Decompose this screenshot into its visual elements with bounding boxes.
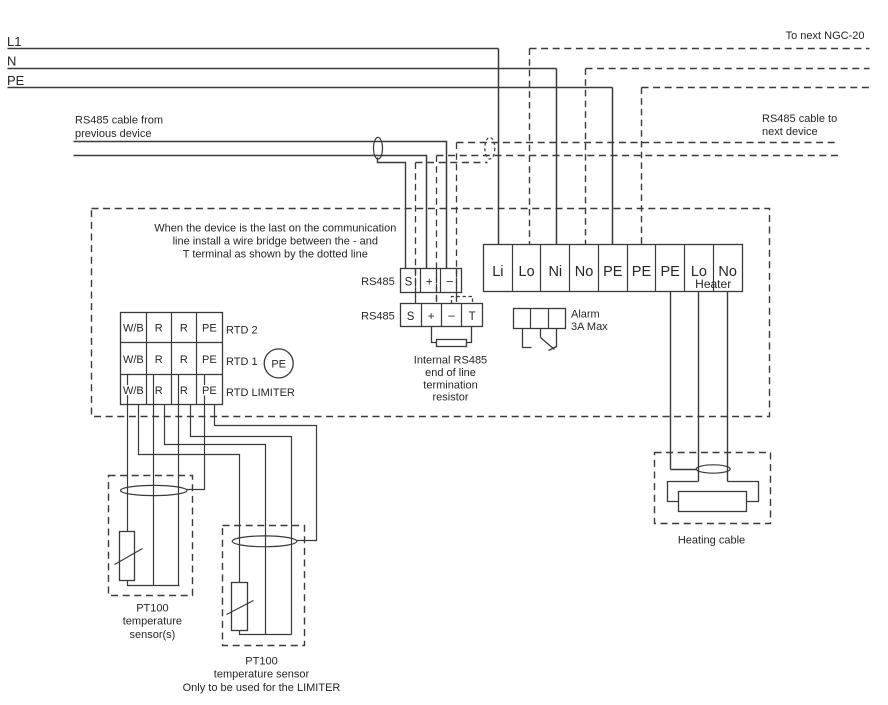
svg-text:W/B: W/B [123, 385, 144, 397]
svg-text:RS485 cable from: RS485 cable from [75, 115, 163, 127]
svg-text:S: S [407, 311, 415, 323]
svg-text:next device: next device [762, 126, 818, 138]
svg-text:–: – [448, 310, 455, 322]
svg-text:R: R [180, 354, 188, 366]
svg-text:Ni: Ni [548, 264, 562, 280]
svg-text:RTD 2: RTD 2 [226, 325, 258, 337]
svg-text:Heating cable: Heating cable [678, 535, 745, 547]
svg-text:line install a wire bridge bet: line install a wire bridge between the -… [173, 235, 378, 247]
svg-text:R: R [180, 323, 188, 335]
svg-text:PT100: PT100 [245, 655, 277, 667]
svg-text:PE: PE [7, 73, 25, 88]
svg-text:Internal RS485: Internal RS485 [414, 355, 487, 367]
svg-text:PE: PE [661, 264, 681, 280]
svg-text:W/B: W/B [123, 323, 144, 335]
svg-text:PT100: PT100 [136, 602, 168, 614]
svg-text:RS485: RS485 [361, 276, 395, 288]
svg-text:To next NGC-20: To next NGC-20 [786, 30, 865, 42]
svg-text:–: – [447, 275, 454, 287]
svg-text:R: R [155, 323, 163, 335]
svg-text:temperature: temperature [123, 616, 182, 628]
svg-text:+: + [426, 276, 433, 288]
svg-text:resistor: resistor [432, 392, 468, 404]
svg-text:PE: PE [603, 264, 623, 280]
svg-text:sensor(s): sensor(s) [129, 629, 175, 641]
svg-text:Only to be used for the LIMITE: Only to be used for the LIMITER [183, 682, 341, 694]
svg-text:+: + [428, 311, 435, 323]
svg-text:T terminal as shown by the dot: T terminal as shown by the dotted line [183, 248, 368, 260]
svg-text:N: N [7, 54, 16, 69]
svg-text:T: T [469, 311, 476, 323]
svg-text:L1: L1 [7, 34, 21, 49]
svg-text:Alarm: Alarm [571, 309, 600, 321]
svg-text:Heater: Heater [695, 277, 731, 291]
svg-text:PE: PE [202, 354, 217, 366]
svg-text:RS485 cable to: RS485 cable to [762, 113, 837, 125]
svg-text:R: R [155, 354, 163, 366]
svg-text:previous device: previous device [75, 128, 151, 140]
svg-text:RTD LIMITER: RTD LIMITER [226, 387, 295, 399]
svg-text:end of line: end of line [425, 367, 476, 379]
svg-text:S: S [405, 276, 413, 288]
svg-text:3A Max: 3A Max [571, 321, 608, 333]
svg-text:PE: PE [632, 264, 652, 280]
svg-text:W/B: W/B [123, 354, 144, 366]
svg-text:When the device is the last on: When the device is the last on the commu… [154, 222, 396, 234]
svg-text:Li: Li [492, 264, 503, 280]
svg-text:termination: termination [423, 379, 477, 391]
svg-text:temperature sensor: temperature sensor [214, 669, 310, 681]
svg-text:PE: PE [202, 323, 217, 335]
svg-text:R: R [180, 385, 188, 397]
svg-text:PE: PE [271, 358, 286, 370]
svg-text:RS485: RS485 [361, 311, 395, 323]
svg-text:PE: PE [202, 385, 217, 397]
svg-text:Lo: Lo [519, 264, 535, 280]
svg-text:No: No [575, 264, 594, 280]
svg-text:RTD 1: RTD 1 [226, 356, 258, 368]
svg-text:R: R [155, 385, 163, 397]
